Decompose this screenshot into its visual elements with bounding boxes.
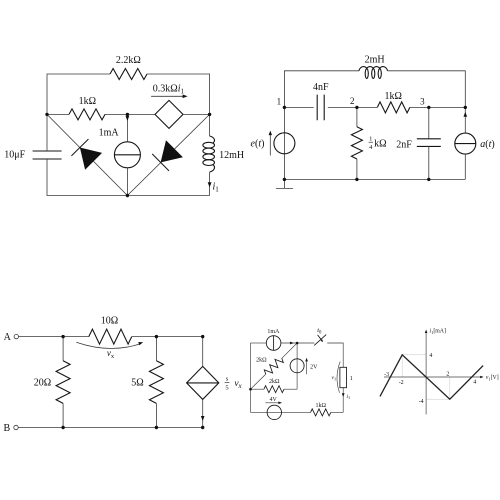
label 1kOhm <box>79 96 96 107</box>
svg-text:4: 4 <box>473 380 476 386</box>
tick label 2 (x) <box>446 372 449 378</box>
label 1kOhm C2 <box>384 91 401 102</box>
resistor R4 1/4 kOhm <box>351 127 362 159</box>
diode D1 (left diagonal) <box>71 139 102 170</box>
svg-text:vx: vx <box>107 348 115 360</box>
inductor L1 12mH <box>203 136 215 172</box>
svg-text:2nF: 2nF <box>396 139 412 150</box>
label node 2 <box>350 96 355 106</box>
node dot C2 (357,107) <box>355 106 358 109</box>
svg-text:-4: -4 <box>419 399 424 405</box>
label 1 (box) <box>350 376 353 382</box>
wire bottom-right C1 <box>127 195 209 197</box>
wire a(t) top lead with arrow <box>464 107 468 133</box>
voltage source V1 2V <box>290 359 304 373</box>
wire left C4 <box>250 343 252 412</box>
svg-text:-2: -2 <box>399 380 404 386</box>
wire mid-right C1 <box>183 113 210 115</box>
node dot C4 left <box>249 388 252 391</box>
svg-text:i1: i1 <box>213 182 220 194</box>
wire left C1 upper <box>46 114 48 151</box>
capacitor C2 4nF <box>317 95 324 121</box>
dependent source U1 0.3kOhm*i1 (diamond) <box>155 100 183 128</box>
label e(t) <box>251 139 265 150</box>
wire cap to node2 C2 <box>328 106 357 108</box>
wire e(t) branch <box>283 107 285 179</box>
svg-text:5: 5 <box>225 384 228 391</box>
svg-text:2: 2 <box>350 96 355 106</box>
label 1mA C4 <box>267 329 280 335</box>
tick label -3 (x) <box>384 372 389 378</box>
label 0.3kOhm i1 <box>153 84 185 96</box>
wire inductor bottom lead + arrow i1 <box>208 172 212 196</box>
svg-text:v1[V]: v1[V] <box>486 375 499 381</box>
node dot (127,114) <box>126 113 129 116</box>
wire 2nF top lead <box>428 107 430 138</box>
wire top-left C2 <box>284 71 359 108</box>
wire R5 to right C3 <box>132 336 203 338</box>
switch t0 <box>297 335 326 346</box>
svg-text:1: 1 <box>277 97 282 107</box>
current source I2 1mA <box>266 336 281 351</box>
label v1 <box>332 375 337 381</box>
svg-text:0.3kΩi1: 0.3kΩi1 <box>153 84 185 96</box>
arrow e(t) <box>269 131 272 156</box>
arrow under 0.3kOhm label <box>151 95 188 99</box>
node dot C2 (284,107) <box>283 106 286 109</box>
wire quarter-kOhm top lead <box>356 107 358 126</box>
svg-text:10μF: 10μF <box>4 150 25 161</box>
node dot C2 (429,107) <box>427 106 430 109</box>
label 1mA <box>99 127 120 138</box>
label 4V + arrow <box>266 397 283 404</box>
label node 1 <box>277 97 282 107</box>
wire node2 to R3 <box>357 106 377 108</box>
node dot (47,114) <box>45 113 48 116</box>
wire I2 to node + arrow <box>281 342 297 345</box>
inductor L2 2mH <box>359 67 388 79</box>
label 2V <box>310 364 318 370</box>
wire mid-center C1 <box>105 113 155 115</box>
voltage source e(t) <box>274 133 295 154</box>
svg-text:B: B <box>3 423 10 434</box>
wire diagonal right C1 <box>127 114 209 195</box>
svg-text:2kΩ: 2kΩ <box>256 357 267 363</box>
wire 1k to corner C4 <box>331 411 343 413</box>
tick label 4 (x) <box>473 380 476 386</box>
arrow v_x arc <box>76 342 143 348</box>
svg-text:2.2kΩ: 2.2kΩ <box>116 55 141 66</box>
label 1kOhm C4 <box>315 403 326 409</box>
graph x-axis v1[V] <box>384 376 484 379</box>
dependent source U2 (s/5)vx diamond <box>187 366 219 399</box>
label 2kOhm horiz <box>269 379 280 385</box>
arrow 2V <box>305 358 308 374</box>
label 2kOhm diag <box>256 357 267 363</box>
node dot (210,114) <box>208 113 211 116</box>
voltage source V2 4V <box>267 405 281 419</box>
wire switch to corner C4 <box>327 343 343 367</box>
node dot C3 (156,428) <box>155 426 158 429</box>
svg-text:5Ω: 5Ω <box>131 378 143 389</box>
svg-text:e(t): e(t) <box>251 139 265 150</box>
graph curve i1(v1) <box>380 355 483 399</box>
wire top-left C4 <box>251 342 267 344</box>
resistor R10 2kOhm horiz <box>251 386 298 393</box>
node dot C2 (357,179) <box>355 178 358 181</box>
label a(t) <box>480 139 494 150</box>
wire top-right segment C1 <box>147 74 210 136</box>
wire quarter-kOhm bottom lead <box>356 159 358 179</box>
label 10uF <box>4 150 25 161</box>
svg-text:a(t): a(t) <box>480 139 494 150</box>
current source I1 1mA (circle) <box>114 142 140 168</box>
wire bottom C3 <box>18 427 203 429</box>
resistor R8 1kOhm <box>311 409 331 416</box>
svg-text:t0: t0 <box>317 327 322 336</box>
wire diagonal left C1 <box>47 114 127 195</box>
arc v1 <box>337 362 340 393</box>
svg-text:i1: i1 <box>346 394 350 400</box>
wire left C1 lower <box>47 159 127 196</box>
wire top-right C2 <box>388 71 466 108</box>
label 4nF <box>313 82 329 93</box>
resistor R5 10&#937; <box>89 329 132 344</box>
label 2mH <box>365 55 385 66</box>
svg-text:1kΩ: 1kΩ <box>315 403 326 409</box>
node dot (127,196) <box>126 194 129 197</box>
wire I1 top lead with arrow <box>126 114 130 141</box>
svg-text:2mH: 2mH <box>365 55 385 66</box>
wire bottom C4 <box>251 411 311 413</box>
wire 2nF bottom lead <box>428 146 430 179</box>
label i1 C4 <box>346 394 350 400</box>
resistor R1 2.2k&#937; <box>110 69 147 80</box>
terminal A <box>14 334 18 338</box>
node dot C3 (203,337) <box>201 335 204 338</box>
wire top-left segment C1 <box>47 74 110 114</box>
svg-text:4: 4 <box>429 353 432 359</box>
resistor R9 2kOhm diagonal <box>251 343 298 389</box>
current source a(t) <box>455 133 476 154</box>
wire box bottom + arrow i1 <box>342 388 345 413</box>
svg-text:2V: 2V <box>310 364 318 370</box>
capacitor C3 2nF <box>417 139 441 147</box>
svg-text:vx: vx <box>234 379 242 390</box>
node dot C2 (284,179) <box>283 178 286 181</box>
svg-text:2kΩ: 2kΩ <box>269 379 280 385</box>
svg-text:1mA: 1mA <box>99 127 120 138</box>
wire node1 to cap C2 <box>284 106 313 108</box>
svg-text:10Ω: 10Ω <box>101 316 118 327</box>
resistor R3 1k&#937; <box>377 102 410 113</box>
label 20Ohm <box>34 378 51 389</box>
svg-text:1kΩ: 1kΩ <box>384 91 401 102</box>
wire R3 to node3 to right <box>410 106 466 108</box>
svg-text:s: s <box>226 376 229 383</box>
capacitor C1 10uF <box>33 151 62 159</box>
label A <box>4 332 12 343</box>
svg-text:i1[mA]: i1[mA] <box>430 329 446 335</box>
svg-text:1mA: 1mA <box>267 329 280 335</box>
label 1/4 kOhm <box>369 136 387 151</box>
resistor R2 1k&#937; <box>69 109 105 120</box>
label 12mH <box>219 150 244 161</box>
label t0 <box>317 327 322 336</box>
svg-text:2: 2 <box>446 372 449 378</box>
node dot C3 (203,428) <box>201 426 204 429</box>
tick label -4 (y) <box>419 399 424 405</box>
wire 2V branch <box>296 343 298 389</box>
tick label 4 (y) <box>429 353 432 359</box>
wire mid-left C1 <box>47 113 69 115</box>
svg-text:1kΩ: 1kΩ <box>79 96 96 107</box>
svg-text:kΩ: kΩ <box>374 138 386 149</box>
svg-text:12mH: 12mH <box>219 150 244 161</box>
wire dep source top lead <box>202 337 204 367</box>
terminal B <box>14 425 18 429</box>
ground <box>276 179 293 188</box>
node dot C2 (429,179) <box>427 178 430 181</box>
svg-text:1: 1 <box>369 136 372 143</box>
label 2.2kOhm <box>116 55 141 66</box>
svg-text:20Ω: 20Ω <box>34 378 51 389</box>
label i1 (C1) <box>213 182 220 194</box>
svg-text:-3: -3 <box>384 372 389 378</box>
wire top A to R5 <box>19 336 89 338</box>
label i1[mA] <box>430 329 446 335</box>
node dot C3 (63,337) <box>61 335 64 338</box>
label v1[V] <box>486 375 499 381</box>
element box v1/1 <box>340 367 347 387</box>
graph helper lines (gray) <box>402 355 450 399</box>
diode D2 (right diagonal) <box>152 140 183 171</box>
node dot C4 top <box>296 342 299 345</box>
label 5Ohm <box>131 378 143 389</box>
node dot C3 (156,337) <box>155 335 158 338</box>
graph y-axis i1[mA] <box>425 330 428 415</box>
wire bottom C2 <box>284 178 465 180</box>
resistor R7 5&#937; <box>149 337 163 428</box>
node dot C3 (63,428) <box>61 426 64 429</box>
svg-text:A: A <box>4 332 12 343</box>
wire I1 bottom lead <box>126 168 128 196</box>
label v_x <box>107 348 115 360</box>
node dot C2 (465,107) <box>464 106 467 109</box>
svg-text:3: 3 <box>420 97 425 107</box>
svg-text:4V: 4V <box>270 397 278 403</box>
label 10Ohm <box>101 316 118 327</box>
svg-text:1: 1 <box>350 376 353 382</box>
svg-text:4nF: 4nF <box>313 82 329 93</box>
wire a(t) bottom lead <box>464 154 466 179</box>
label 2nF <box>396 139 412 150</box>
label (s/5)v_x <box>225 376 243 392</box>
label B <box>3 423 10 434</box>
tick label -2 (x) <box>399 380 404 386</box>
svg-text:4: 4 <box>369 144 373 151</box>
resistor R6 20&#937; <box>56 337 70 428</box>
svg-text:v1: v1 <box>332 375 337 381</box>
wire dep source bottom lead + arrow <box>201 399 205 427</box>
label node 3 <box>420 97 425 107</box>
